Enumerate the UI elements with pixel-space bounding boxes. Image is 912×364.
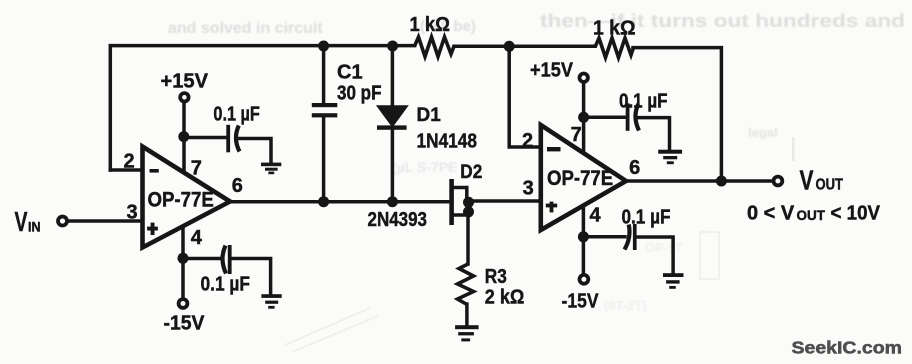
svg-text:0.1 µF: 0.1 µF: [619, 91, 668, 113]
svg-text:and solved in circuit: and solved in circuit: [168, 20, 323, 37]
svg-text:7: 7: [191, 157, 202, 179]
svg-text:1 kΩ: 1 kΩ: [410, 14, 451, 36]
svg-text:V: V: [800, 164, 814, 195]
svg-text:0.1 µF: 0.1 µF: [622, 207, 671, 229]
svg-text:+15V: +15V: [530, 60, 574, 82]
svg-text:R3: R3: [485, 266, 507, 288]
svg-text:0.1 µF: 0.1 µF: [201, 274, 251, 296]
svg-text:3: 3: [127, 202, 138, 224]
svg-text:V: V: [15, 206, 28, 237]
svg-text:(8T-2T): (8T-2T): [604, 298, 647, 313]
svg-text:OUT: OUT: [797, 208, 826, 223]
svg-text:6: 6: [629, 157, 640, 179]
svg-text:4: 4: [590, 205, 602, 227]
svg-text:-15V: -15V: [562, 291, 600, 313]
svg-text:OP-97: OP-97: [645, 240, 683, 255]
svg-text:(µL S-7PE: (µL S-7PE: [392, 159, 457, 175]
svg-text:1N4148: 1N4148: [417, 131, 478, 153]
svg-text:6: 6: [232, 175, 243, 197]
svg-text:0 < V: 0 < V: [747, 203, 795, 225]
svg-text:< 10V: < 10V: [831, 203, 881, 225]
svg-text:2: 2: [522, 130, 533, 152]
svg-text:C1: C1: [337, 62, 363, 84]
svg-text:-15V: -15V: [164, 313, 206, 335]
svg-text:3: 3: [523, 178, 534, 200]
svg-text:OP-77E: OP-77E: [547, 167, 613, 190]
svg-text:D1: D1: [417, 105, 442, 126]
svg-text:+15V: +15V: [161, 71, 209, 93]
svg-text:legal: legal: [748, 125, 778, 140]
svg-text:IN: IN: [28, 219, 41, 234]
svg-text:OP-77E: OP-77E: [148, 188, 214, 211]
svg-text:D2: D2: [460, 162, 482, 183]
svg-text:30 pF: 30 pF: [337, 82, 382, 104]
svg-text:7: 7: [571, 124, 582, 146]
svg-text:SeekIC.com: SeekIC.com: [792, 338, 903, 358]
svg-text:0.1 µF: 0.1 µF: [213, 104, 260, 126]
svg-text:2N4393: 2N4393: [368, 209, 428, 231]
svg-text:2: 2: [124, 150, 135, 172]
svg-text:1 kΩ: 1 kΩ: [593, 18, 636, 40]
svg-text:4: 4: [191, 227, 203, 249]
svg-text:2 kΩ: 2 kΩ: [485, 287, 525, 309]
svg-text:OUT: OUT: [816, 176, 844, 193]
